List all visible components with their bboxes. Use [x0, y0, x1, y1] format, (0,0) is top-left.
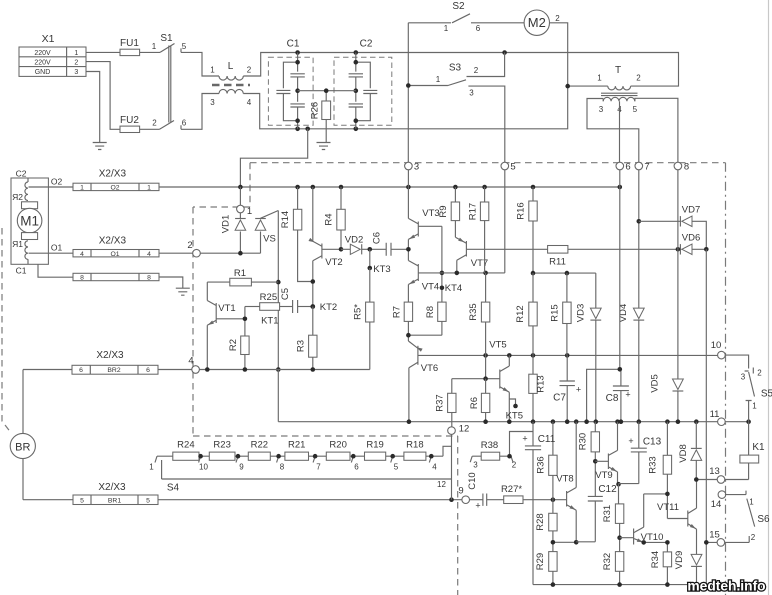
svg-text:R1: R1 — [234, 268, 246, 279]
wire BR2 to pin4 — [158, 369, 192, 371]
svg-text:1: 1 — [247, 206, 252, 217]
svg-text:R27*: R27* — [501, 484, 522, 495]
svg-text:R21: R21 — [288, 440, 305, 451]
transistor VT6 — [408, 341, 438, 422]
pin 10 — [711, 340, 725, 359]
svg-text:3: 3 — [469, 89, 474, 98]
svg-text:VD1: VD1 — [221, 215, 232, 233]
resistor R11 — [548, 246, 678, 268]
transistor VT10 — [620, 494, 664, 545]
svg-text:R35: R35 — [468, 303, 479, 320]
board outline dashed — [193, 163, 726, 595]
svg-text:GND: GND — [35, 69, 51, 76]
motor M2 — [524, 10, 560, 35]
svg-text:X2/X3: X2/X3 — [99, 236, 127, 247]
svg-text:X2/X3: X2/X3 — [96, 350, 124, 361]
wire T-5 to pin8 — [635, 98, 678, 162]
terminal block X1 — [19, 33, 86, 76]
svg-text:1: 1 — [210, 66, 215, 75]
svg-text:1: 1 — [597, 74, 602, 83]
ground at connector 8 — [176, 288, 190, 295]
diode VD6 — [678, 233, 706, 255]
resistor R15 — [550, 273, 572, 355]
svg-text:KT4: KT4 — [445, 283, 462, 294]
junction dot pin13 net — [694, 477, 699, 482]
resistor R3 — [296, 307, 318, 370]
svg-text:1: 1 — [80, 184, 84, 191]
capacitor block C1 — [268, 39, 313, 129]
resistor R16 — [516, 187, 538, 273]
junction dot R27 R36 — [551, 497, 556, 502]
svg-text:C2: C2 — [360, 39, 373, 50]
pin 5 — [501, 162, 516, 173]
wire BR bottom to connector — [23, 459, 73, 500]
svg-text:3: 3 — [741, 373, 746, 382]
pin 8 — [674, 162, 689, 173]
junction dots collector rail — [483, 353, 569, 358]
connector X2/X3 row BR2 — [72, 350, 158, 374]
wire bottom mains bus — [243, 23, 567, 129]
junction dot VT1 base — [243, 317, 248, 322]
svg-text:10: 10 — [199, 463, 208, 472]
svg-text:VD7: VD7 — [682, 205, 700, 216]
capacitor C6 — [368, 232, 409, 256]
svg-text:12: 12 — [437, 480, 446, 489]
ground at X1 — [93, 143, 107, 150]
junction dot base rail R6 — [483, 376, 488, 381]
resistor R25 — [245, 292, 293, 327]
svg-text:3: 3 — [414, 162, 419, 173]
svg-text:S6: S6 — [757, 514, 770, 525]
resistor R26 — [310, 88, 331, 142]
wire X1-2 to FU2 — [86, 62, 120, 130]
resistor R12 — [515, 273, 537, 355]
wire X1-3 GND — [86, 72, 100, 143]
svg-text:2: 2 — [636, 74, 641, 83]
capacitor C10 — [467, 472, 504, 510]
svg-text:5: 5 — [80, 497, 84, 504]
svg-text:220V: 220V — [34, 60, 51, 67]
svg-text:R17: R17 — [468, 203, 479, 220]
svg-text:O2: O2 — [51, 177, 63, 187]
transistor VT4 — [408, 249, 439, 302]
junction dots VT2 — [311, 279, 316, 309]
svg-text:11: 11 — [710, 409, 720, 420]
diode VD5 — [650, 374, 684, 421]
svg-text:C11: C11 — [538, 434, 556, 445]
pin 14 — [711, 491, 726, 510]
capacitor C8 — [606, 367, 631, 422]
wire S2 pole to pin3 — [407, 23, 409, 162]
svg-text:BR2: BR2 — [107, 367, 120, 374]
transistor VT9 — [595, 422, 617, 485]
svg-text:O2: O2 — [110, 184, 119, 191]
wire O1 to pin2 — [159, 252, 193, 254]
svg-text:1: 1 — [152, 42, 157, 51]
svg-text:R36: R36 — [536, 456, 547, 473]
svg-text:R8: R8 — [425, 306, 436, 318]
wire main common rail — [278, 421, 748, 423]
pin 4 — [188, 356, 199, 374]
wire VT5 base rail — [452, 378, 486, 380]
wire top mains bus — [243, 53, 678, 87]
resistor R38 — [470, 440, 517, 469]
wire pin3 to VT3 — [407, 170, 409, 219]
svg-text:VT6: VT6 — [421, 363, 438, 374]
resistor R36 — [536, 422, 558, 500]
capacitor block C2 — [334, 39, 392, 129]
svg-text:VD9: VD9 — [674, 551, 685, 569]
svg-text:R32: R32 — [602, 553, 613, 570]
junction dot BR1 bus — [449, 497, 454, 502]
relay K1 — [725, 422, 765, 480]
wire VT5 collector rail to pin10 — [418, 354, 718, 356]
svg-text:VD3: VD3 — [576, 304, 587, 322]
svg-text:R25: R25 — [260, 292, 277, 303]
svg-text:6: 6 — [182, 119, 187, 128]
svg-text:VS: VS — [263, 234, 276, 245]
resistor R17 — [468, 187, 489, 273]
svg-text:VD8: VD8 — [678, 444, 689, 462]
resistor R4 — [324, 187, 346, 249]
junction dot VD7 tap — [637, 219, 642, 224]
svg-text:220V: 220V — [34, 50, 51, 57]
diode VD1 — [221, 215, 246, 233]
junction dots VS rail — [276, 280, 281, 372]
transistor VT2 — [308, 187, 342, 307]
svg-text:VT9: VT9 — [595, 470, 612, 481]
svg-text:R19: R19 — [366, 440, 383, 451]
fuse FU2 — [120, 115, 160, 133]
svg-text:1: 1 — [147, 184, 151, 191]
board outline right dash-dot — [725, 163, 727, 595]
svg-text:L: L — [228, 61, 234, 72]
svg-text:14: 14 — [711, 499, 722, 510]
svg-text:8: 8 — [147, 275, 151, 282]
junction dot S2-S3 — [406, 83, 411, 88]
junction dot R34 top — [641, 540, 669, 545]
svg-text:9: 9 — [239, 463, 244, 472]
resistor R14 — [280, 187, 313, 282]
svg-text:VT1: VT1 — [218, 303, 235, 314]
wire pin5 branch — [418, 170, 505, 273]
wire pin4 bus — [199, 369, 369, 371]
resistor R1 — [207, 268, 278, 286]
svg-text:R28: R28 — [535, 513, 546, 530]
wire selector S4 — [162, 460, 452, 494]
svg-text:3: 3 — [74, 69, 78, 76]
wire C1-C2 midpoint tap — [298, 90, 356, 92]
svg-text:2: 2 — [512, 461, 517, 470]
svg-text:C1: C1 — [287, 39, 300, 50]
junction dot VT9 emitter — [616, 482, 621, 487]
junction dots VD6 — [676, 247, 709, 252]
resistor R30 — [577, 422, 599, 462]
junction dot R7R8 — [406, 333, 411, 338]
svg-text:8: 8 — [280, 463, 285, 472]
svg-text:Я1: Я1 — [12, 239, 23, 249]
svg-text:C8: C8 — [606, 393, 619, 404]
transistor VT7 — [455, 237, 547, 273]
svg-text:2: 2 — [474, 66, 479, 75]
svg-text:VT2: VT2 — [325, 257, 342, 268]
svg-text:S5: S5 — [761, 389, 772, 400]
svg-text:X2/X3: X2/X3 — [98, 482, 126, 493]
switch S2 — [408, 1, 524, 33]
svg-text:R33: R33 — [647, 456, 658, 473]
wire R38 to C11 rail — [510, 432, 534, 457]
test point KT5 — [506, 399, 523, 422]
wire S1-5 to L1 — [181, 52, 219, 76]
wire BR1 bus to pin9 — [158, 499, 462, 501]
transistor VT5 — [486, 340, 510, 422]
svg-text:15: 15 — [709, 530, 720, 541]
junction dots O2 bus — [238, 185, 622, 190]
resistor R35 — [468, 273, 490, 379]
wire X1-1 to FU1 — [86, 51, 120, 53]
wire pin15 net — [706, 541, 749, 543]
svg-text:4: 4 — [147, 251, 151, 258]
svg-text:3: 3 — [473, 461, 478, 470]
junction dot base rail — [440, 271, 445, 276]
node 12 — [448, 424, 470, 435]
svg-text:2: 2 — [187, 240, 192, 251]
svg-text:7: 7 — [644, 162, 649, 173]
svg-text:4: 4 — [80, 251, 84, 258]
svg-text:12: 12 — [459, 424, 470, 435]
svg-text:S4: S4 — [167, 483, 180, 494]
svg-text:R14: R14 — [280, 211, 291, 228]
wire mains to board pin1 node — [240, 129, 307, 187]
junction dot R38 — [507, 454, 512, 459]
svg-text:+: + — [475, 501, 480, 511]
svg-text:R34: R34 — [650, 551, 661, 568]
svg-text:R22: R22 — [251, 440, 268, 451]
svg-text:VD2: VD2 — [345, 235, 363, 246]
wire R12 R15 top rail — [533, 272, 596, 274]
junction dots pin5 branch — [455, 271, 488, 276]
svg-text:KT1: KT1 — [261, 316, 278, 327]
svg-text:1: 1 — [436, 75, 441, 84]
transistor VT11 — [657, 480, 697, 555]
svg-text:R9: R9 — [438, 205, 449, 217]
svg-text:1: 1 — [74, 50, 78, 57]
wire M1 O2 tap — [29, 177, 74, 188]
switch S3 — [408, 53, 505, 163]
ground at R26 — [317, 143, 331, 150]
svg-text:S1: S1 — [160, 33, 173, 44]
junction dots mains buses — [295, 50, 570, 131]
wire pin4 bus drop to common rail — [277, 370, 279, 422]
resistor R9 — [438, 187, 460, 237]
svg-text:R30: R30 — [577, 433, 588, 450]
svg-text:1: 1 — [149, 463, 154, 472]
resistor R2 — [228, 307, 249, 370]
pin 7 — [635, 162, 650, 173]
resistor R6 — [469, 379, 490, 422]
svg-text:6: 6 — [146, 367, 150, 374]
svg-text:+: + — [628, 436, 633, 446]
svg-text:FU1: FU1 — [120, 38, 139, 49]
connector row 8 — [73, 273, 159, 281]
svg-text:VT8: VT8 — [556, 474, 573, 485]
wire pin2 net — [200, 252, 260, 254]
junction dots emitter node — [551, 540, 579, 545]
resistor R34 — [650, 542, 672, 584]
svg-text:+: + — [625, 390, 630, 400]
svg-text:7: 7 — [316, 463, 321, 472]
svg-text:2: 2 — [555, 14, 560, 23]
resistor R37 — [435, 379, 457, 427]
svg-text:1: 1 — [752, 402, 757, 411]
svg-text:3: 3 — [599, 105, 604, 114]
svg-text:BR1: BR1 — [108, 497, 121, 504]
wire pin8 branch — [677, 170, 679, 379]
svg-text:2: 2 — [757, 369, 762, 378]
resistor R5* — [353, 268, 375, 370]
capacitor C12 — [576, 461, 617, 542]
switch S6 — [725, 491, 770, 543]
thyristor VS — [255, 211, 278, 254]
tacho generator BR — [10, 433, 35, 458]
svg-text:4: 4 — [188, 356, 193, 367]
svg-text:M1: M1 — [20, 213, 39, 228]
svg-text:S3: S3 — [449, 63, 462, 74]
junction dot R33 — [665, 492, 670, 497]
junction dot pin15 — [704, 540, 709, 545]
pin 11 — [710, 409, 726, 426]
capacitor C11 — [522, 422, 555, 585]
pin 6 — [616, 162, 631, 173]
diode VD8 — [678, 422, 702, 480]
svg-text:R31: R31 — [602, 505, 613, 522]
svg-text:+: + — [576, 385, 581, 395]
pin 15 — [709, 530, 724, 547]
wire VT3-VT4 base rail — [441, 226, 443, 302]
svg-text:R37: R37 — [435, 394, 446, 411]
svg-text:KT3: KT3 — [373, 264, 390, 275]
junction dot R30 VT9 — [593, 459, 598, 464]
svg-text:R18: R18 — [406, 440, 423, 451]
svg-text:5: 5 — [182, 42, 187, 51]
svg-text:O1: O1 — [51, 243, 63, 253]
svg-text:R20: R20 — [329, 440, 346, 451]
diode VD7 — [639, 205, 707, 250]
svg-text:R3: R3 — [296, 340, 307, 352]
diode VD4 — [618, 170, 644, 422]
wire connector8 to ground — [159, 277, 183, 288]
switch S1 — [152, 33, 187, 129]
svg-text:2: 2 — [247, 66, 252, 75]
svg-text:R11: R11 — [549, 257, 566, 268]
connector X2/X3 row BR1 — [73, 482, 158, 505]
test point KT4 — [440, 283, 463, 294]
wire pin1 branch — [239, 187, 241, 253]
svg-text:X1: X1 — [42, 33, 55, 45]
svg-text:R5*: R5* — [353, 304, 364, 320]
transformer T — [597, 65, 641, 114]
svg-text:R16: R16 — [516, 202, 527, 219]
resistor R7 — [392, 302, 413, 341]
junction dot R4-VD2 — [339, 247, 344, 252]
svg-text:8: 8 — [684, 162, 689, 173]
svg-text:R15: R15 — [550, 304, 561, 321]
wire T primary left feed — [568, 85, 608, 87]
resistor R8 — [408, 302, 446, 335]
svg-text:C1: C1 — [16, 266, 27, 276]
junction dots chain — [198, 454, 433, 459]
transistor VT8 — [556, 422, 576, 543]
wire M1 C1 to connector 8 — [38, 264, 73, 277]
watermark — [687, 579, 765, 594]
svg-text:Я2: Я2 — [12, 192, 23, 202]
svg-text:VD5: VD5 — [650, 374, 661, 392]
svg-text:R13: R13 — [536, 375, 547, 392]
diode VD3 — [576, 273, 602, 422]
svg-text:R24: R24 — [177, 440, 194, 451]
resistor R33 — [647, 422, 671, 519]
svg-text:5: 5 — [146, 497, 150, 504]
svg-text:C2: C2 — [16, 169, 27, 179]
capacitor C13 — [619, 422, 662, 485]
wire VT10 collector rail — [644, 493, 668, 495]
transistor VT1 — [207, 282, 245, 369]
junction dots pin4 bus — [205, 367, 315, 372]
svg-text:S2: S2 — [452, 1, 465, 12]
svg-text:VD6: VD6 — [682, 233, 700, 244]
fuse FU1 — [120, 38, 160, 56]
wire bottom rail — [533, 584, 706, 586]
svg-text:2: 2 — [74, 60, 78, 67]
svg-text:R29: R29 — [535, 553, 546, 570]
wire T-3 to pin7 — [587, 99, 639, 163]
connector X2/X3 row O1 — [73, 236, 159, 258]
test point KT2 — [311, 302, 338, 313]
svg-text:K1: K1 — [752, 442, 765, 453]
capacitor C5 — [280, 288, 313, 313]
junction dot C6 node — [406, 247, 411, 252]
svg-text:5: 5 — [510, 162, 515, 173]
svg-text:X2/X3: X2/X3 — [99, 169, 127, 180]
svg-text:VT7: VT7 — [471, 258, 488, 269]
wire O2 bus — [159, 186, 620, 188]
diode VD9 — [674, 551, 702, 585]
junction dots bottom rail — [551, 582, 699, 587]
switch S5 — [725, 355, 772, 422]
svg-text:+: + — [522, 434, 527, 444]
svg-text:O1: O1 — [110, 251, 119, 258]
wire BR top to connector — [23, 370, 72, 434]
pin 3 — [405, 162, 420, 173]
svg-text:R2: R2 — [228, 339, 239, 351]
svg-text:R4: R4 — [324, 213, 335, 225]
resistor chain R24-R18 — [157, 440, 443, 461]
pin 9 — [458, 486, 469, 504]
svg-text:4: 4 — [432, 463, 437, 472]
resistor R32 — [602, 538, 624, 585]
svg-text:13: 13 — [709, 466, 720, 477]
svg-text:8: 8 — [80, 275, 84, 282]
svg-text:2: 2 — [751, 533, 756, 542]
motor M1 assembly — [11, 169, 48, 276]
pin 1 — [237, 205, 253, 217]
svg-text:1: 1 — [444, 24, 449, 33]
svg-text:C7: C7 — [553, 393, 566, 404]
wire pin6 branch — [587, 170, 620, 422]
connector X2/X3 row O2 — [73, 169, 159, 192]
svg-text:VT4: VT4 — [422, 282, 439, 293]
svg-text:6: 6 — [625, 162, 630, 173]
